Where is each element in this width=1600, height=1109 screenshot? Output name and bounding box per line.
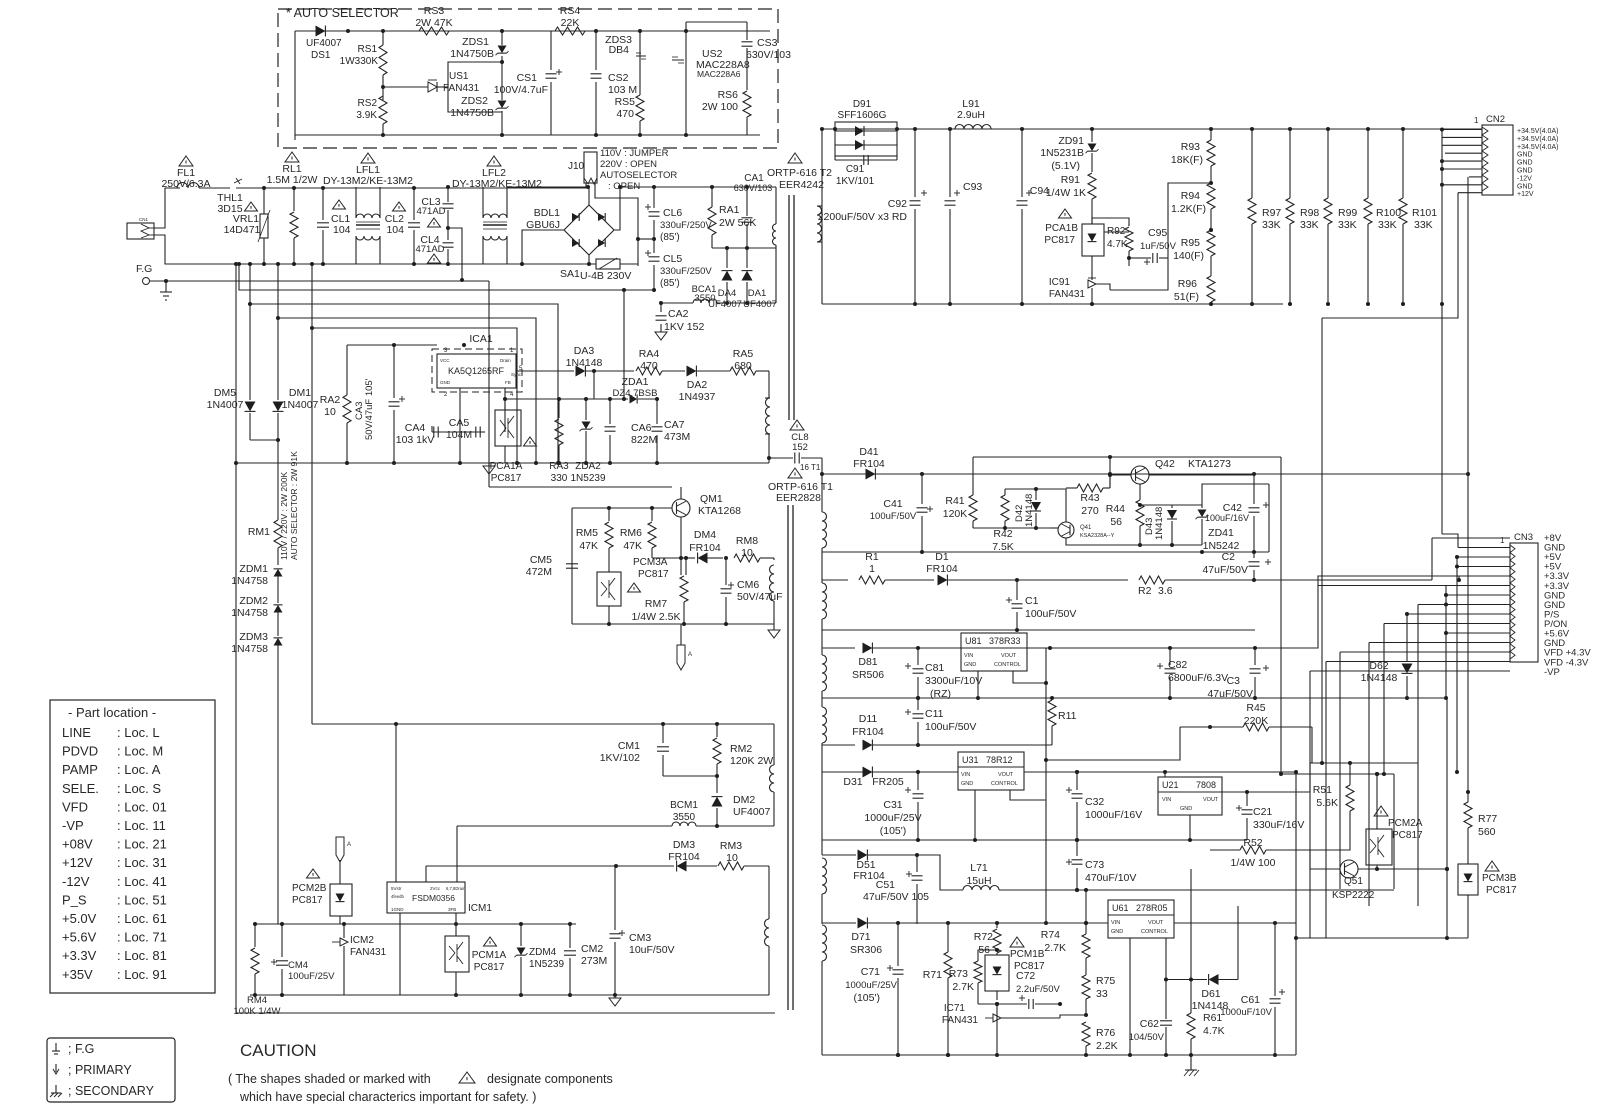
- svg-text:GND: GND: [1111, 929, 1123, 935]
- svg-text:330uF/16V: 330uF/16V: [1253, 819, 1304, 831]
- transformer T2 secondary winding: [817, 206, 822, 242]
- svg-text:4feedb: 4feedb: [391, 894, 404, 899]
- node CS2 top: [594, 29, 598, 33]
- svg-text:AUTO SELECTOR : 2W 91K: AUTO SELECTOR : 2W 91K: [289, 451, 299, 560]
- wire stair 1: [239, 264, 654, 290]
- svg-text:RA1: RA1: [719, 204, 740, 216]
- svg-text:CM5: CM5: [530, 554, 552, 566]
- svg-text:PCA1B: PCA1B: [1045, 223, 1078, 234]
- svg-text:ZDM4: ZDM4: [529, 947, 557, 958]
- svg-text:R93: R93: [1181, 141, 1200, 153]
- resistor RS6 2W 100: [743, 91, 751, 117]
- svg-text:U81: U81: [965, 636, 982, 646]
- wire CN2 +12V vertical: [1322, 193, 1458, 318]
- svg-text:-12V: -12V: [1517, 175, 1532, 182]
- svg-text:DS1: DS1: [311, 50, 331, 61]
- svg-text:103 M: 103 M: [608, 84, 637, 96]
- svg-text:273M: 273M: [581, 955, 607, 967]
- svg-text:C41: C41: [883, 498, 902, 510]
- capacitor CS1 100V/4.7uF: [550, 31, 552, 70]
- svg-text:RS2: RS2: [358, 98, 378, 109]
- svg-text:PCM2B: PCM2B: [292, 883, 327, 894]
- capacitor C71 1000uF/25V (105'): [887, 967, 893, 969]
- svg-text:104: 104: [386, 224, 404, 236]
- svg-text:A: A: [688, 652, 692, 658]
- svg-text:R77: R77: [1478, 813, 1497, 825]
- svg-text:VOUT: VOUT: [1203, 797, 1219, 803]
- svg-text:1N5231B: 1N5231B: [1040, 147, 1084, 159]
- transistor Q41 KSA2328A-Y: [1058, 522, 1074, 538]
- svg-text:1: 1: [1474, 116, 1479, 125]
- svg-text:-VP: -VP: [62, 818, 84, 833]
- svg-text:270: 270: [1081, 505, 1099, 517]
- svg-text:10uF/50V: 10uF/50V: [629, 944, 675, 956]
- svg-text:1N4758: 1N4758: [231, 607, 268, 619]
- svg-text:DY-13M2/KE-13M2: DY-13M2/KE-13M2: [452, 178, 542, 190]
- svg-text:EER2828: EER2828: [776, 492, 821, 504]
- svg-text:DZ4.7BSB: DZ4.7BSB: [613, 388, 658, 399]
- wire ICM1 gnd down: [399, 913, 401, 995]
- wire bottom mid rail: [250, 994, 769, 996]
- svg-text:RM8: RM8: [736, 535, 758, 547]
- svg-text:D1: D1: [935, 551, 949, 563]
- capacitor CM4 100uF/25V: [271, 961, 277, 963]
- svg-text:A: A: [347, 842, 351, 848]
- wire C32 column: [1075, 770, 1079, 774]
- svg-text:R76: R76: [1096, 1027, 1115, 1039]
- svg-text:2W 47K: 2W 47K: [415, 17, 452, 29]
- svg-text:: Loc. 31: : Loc. 31: [117, 855, 167, 870]
- wire stair 1 vertical to FB node: [623, 290, 625, 399]
- wire U31 control: [1010, 790, 1046, 800]
- wire US1 to ZDS boxes: [448, 62, 502, 87]
- svg-text:51(F): 51(F): [1174, 291, 1199, 303]
- svg-text:designate components: designate components: [487, 1072, 613, 1086]
- resistor R100 33K: [1367, 129, 1369, 198]
- capacitor C81 3300uF/10V RZ: [905, 665, 911, 667]
- capacitor CA2 1KV 152: [660, 303, 662, 312]
- svg-text:100K 1/4W: 100K 1/4W: [234, 1006, 281, 1017]
- svg-text:1N4750B: 1N4750B: [450, 48, 494, 60]
- wire ICA1 drain: [516, 370, 574, 372]
- ground CA2: [655, 332, 667, 340]
- svg-text:DM4: DM4: [694, 529, 716, 541]
- optocoupler PCA1B PC817: [1059, 209, 1072, 218]
- svg-text:PAMP: PAMP: [62, 762, 98, 777]
- optocoupler PCM3B PC817: [1485, 861, 1499, 871]
- wire US2 vertical: [685, 22, 687, 135]
- svg-text:C2: C2: [1222, 551, 1236, 563]
- svg-text:( The shapes shaded or marked: ( The shapes shaded or marked with: [228, 1072, 431, 1086]
- svg-text:5.6K: 5.6K: [1316, 797, 1338, 809]
- wire ICA1 vcc rail: [347, 344, 437, 346]
- svg-text:US1: US1: [449, 71, 469, 82]
- resistor R99 33K: [1327, 129, 1329, 198]
- svg-text:RM1: RM1: [248, 526, 270, 538]
- svg-text:+34.5V(4.0A): +34.5V(4.0A): [1517, 136, 1558, 143]
- wire CN3 stubs: [1432, 537, 1510, 539]
- svg-text:1N4148: 1N4148: [566, 357, 603, 369]
- svg-text:PC817: PC817: [1044, 235, 1075, 246]
- wire Q41 collector up: [1036, 489, 1066, 522]
- wire U81 gnd down: [977, 671, 979, 698]
- wire C95 to R95 node: [1167, 215, 1169, 258]
- legend symbol FG: [55, 1043, 57, 1051]
- transformer T1 winding s6: [822, 925, 827, 961]
- capacitor C61 1000uF/10V: [1279, 991, 1285, 993]
- svg-text:- Part location -: - Part location -: [68, 705, 156, 720]
- capacitor C11 100uF/50V: [905, 711, 911, 713]
- svg-text:CM6: CM6: [737, 579, 759, 591]
- svg-text:DM2: DM2: [733, 794, 755, 806]
- svg-text:FR104: FR104: [668, 851, 700, 863]
- node A arrow down pcm2b: [336, 837, 344, 862]
- resistor R101 33K: [1402, 129, 1404, 198]
- shunt reg US1 FAN431: [428, 82, 437, 92]
- wire ICA1 gnd pin: [459, 388, 461, 463]
- resistor RS2 3.9K: [379, 96, 387, 124]
- capacitor CL5 330uF/250V: [653, 239, 655, 253]
- svg-text:R94: R94: [1181, 190, 1200, 202]
- wire AC top rail: [264, 187, 589, 189]
- svg-text:: Loc. 61: : Loc. 61: [117, 911, 167, 926]
- svg-text:RM6: RM6: [620, 527, 642, 539]
- node bottom rail dots: [345, 461, 349, 465]
- svg-text:1uF/50V: 1uF/50V: [1140, 241, 1177, 252]
- wire DM5/DM1 join: [250, 439, 278, 441]
- svg-text:3FB: 3FB: [448, 907, 456, 912]
- wire ICM1 fb down: [455, 913, 457, 924]
- wire DM3 row: [426, 865, 674, 867]
- node RS5: [638, 29, 642, 33]
- wire CM1/RM2 join: [663, 775, 717, 777]
- svg-text:2.2K: 2.2K: [1096, 1040, 1118, 1052]
- ground mid rail: [609, 998, 621, 1006]
- svg-text:330uF/250V: 330uF/250V: [660, 266, 712, 277]
- svg-text:630V/103: 630V/103: [746, 49, 791, 61]
- wire D51 row: [822, 854, 856, 856]
- ground symbol right: [768, 630, 780, 638]
- svg-text:R98: R98: [1300, 207, 1319, 219]
- svg-text:CN2: CN2: [1486, 114, 1505, 125]
- optocoupler PCM1B PC817: [985, 955, 1009, 991]
- svg-text:+12V: +12V: [1517, 191, 1534, 198]
- wire PCM2A top: [1376, 774, 1378, 829]
- svg-text:33K: 33K: [1262, 219, 1281, 231]
- svg-text:560: 560: [1478, 826, 1496, 838]
- svg-text:1N4148: 1N4148: [1361, 672, 1398, 684]
- capacitor C1 100uF/50V: [1006, 599, 1012, 601]
- svg-text:+3.3V: +3.3V: [62, 948, 97, 963]
- transformer T2 core: [788, 195, 790, 420]
- svg-text:140(F): 140(F): [1173, 250, 1204, 262]
- svg-text:MAC228A6: MAC228A6: [697, 69, 741, 79]
- svg-text:470uF/10V: 470uF/10V: [1085, 872, 1136, 884]
- ground R61 hatch: [1185, 1069, 1197, 1071]
- svg-text:278R05: 278R05: [1136, 903, 1168, 913]
- wire R93/R94 tap: [1168, 183, 1211, 215]
- svg-text:CS2: CS2: [608, 72, 629, 84]
- svg-text:R43: R43: [1080, 492, 1099, 504]
- wire D11 bottom rail: [822, 771, 958, 773]
- svg-text:1000uF/25V: 1000uF/25V: [845, 980, 897, 991]
- svg-text:C32: C32: [1085, 796, 1104, 808]
- wire R45 right vertical: [1311, 727, 1313, 763]
- svg-text:1KV/101: 1KV/101: [836, 176, 875, 187]
- wire 34V rail bottom: [822, 303, 1283, 305]
- wire J10 doubler tap: [595, 183, 638, 266]
- wire x312 vcc vertical: [311, 264, 313, 724]
- svg-text:1N4148: 1N4148: [1024, 494, 1035, 527]
- svg-text:14D471: 14D471: [224, 224, 261, 236]
- wire CL3/CL4 tap to FG: [448, 228, 462, 280]
- svg-text:Sync: Sync: [511, 372, 522, 377]
- svg-text:FR104: FR104: [852, 726, 884, 738]
- svg-text:CN1: CN1: [139, 217, 148, 222]
- svg-text:1N5239: 1N5239: [570, 473, 605, 484]
- svg-text:FR205: FR205: [872, 776, 904, 788]
- capacitor CS2 103 M: [595, 31, 597, 70]
- wire ICM1 Vcc up to DM3 row: [425, 866, 427, 882]
- svg-text:CS1: CS1: [517, 72, 538, 84]
- svg-text:D11: D11: [859, 713, 878, 725]
- svg-text:R45: R45: [1246, 702, 1265, 714]
- svg-text:R71: R71: [923, 969, 942, 981]
- resistor RS1 1W330K: [379, 45, 387, 75]
- svg-text:15uH: 15uH: [966, 875, 991, 887]
- wire ICM1 5Vstr up: [395, 724, 397, 882]
- wire left long vertical: [235, 264, 237, 1013]
- svg-text:GND: GND: [1517, 160, 1533, 167]
- svg-text:2.7K: 2.7K: [952, 981, 974, 993]
- wire bridge left vertex: [522, 230, 564, 264]
- svg-text:* AUTO SELECTOR: * AUTO SELECTOR: [286, 6, 399, 20]
- svg-text:50V/47uF 105': 50V/47uF 105': [364, 378, 375, 440]
- svg-text:DY-13M2/KE-13M2: DY-13M2/KE-13M2: [323, 175, 413, 187]
- wire +12V long vertical x1322: [1321, 318, 1323, 763]
- svg-text:2W 100: 2W 100: [702, 101, 738, 113]
- svg-text:R41: R41: [945, 495, 964, 507]
- diode DA4 UF4007: [726, 248, 728, 268]
- svg-text:R75: R75: [1096, 975, 1115, 987]
- svg-text:KA5Q1265RF: KA5Q1265RF: [448, 366, 505, 376]
- svg-text:VCC: VCC: [440, 358, 450, 363]
- svg-text:100uF/25V: 100uF/25V: [288, 971, 335, 982]
- svg-text:PCM3A: PCM3A: [633, 557, 668, 568]
- svg-text:4.7K: 4.7K: [1107, 239, 1128, 250]
- svg-text:CM2: CM2: [581, 943, 603, 955]
- svg-text:; F.G: ; F.G: [68, 1042, 94, 1056]
- svg-text:GBU6J: GBU6J: [526, 219, 560, 231]
- svg-text:+5.6V: +5.6V: [62, 930, 97, 945]
- wire D81 row: [822, 647, 855, 649]
- svg-text:C61: C61: [1241, 994, 1260, 1006]
- svg-text:C95: C95: [1148, 227, 1167, 239]
- svg-text:104M: 104M: [446, 429, 472, 441]
- svg-text:33K: 33K: [1378, 219, 1397, 231]
- svg-text:: Loc. L: : Loc. L: [117, 725, 160, 740]
- svg-text:4.7K: 4.7K: [1203, 1025, 1225, 1037]
- svg-text:1N4758: 1N4758: [231, 643, 268, 655]
- svg-text:: Loc. 51: : Loc. 51: [117, 892, 167, 907]
- svg-text:C92: C92: [888, 198, 907, 210]
- svg-text:100uF/50V: 100uF/50V: [925, 721, 976, 733]
- optocoupler PCM2A PC817: [1366, 829, 1392, 865]
- svg-text:RA4: RA4: [639, 348, 660, 360]
- svg-text:50V/47uF: 50V/47uF: [737, 591, 783, 603]
- svg-text:IC71: IC71: [944, 1003, 966, 1014]
- wire feedback rail: [255, 923, 576, 925]
- ground T1 drive: [773, 558, 775, 560]
- svg-text:BDL1: BDL1: [534, 207, 560, 219]
- wire CA4 row: [432, 431, 485, 433]
- wire secondary top rail: [822, 128, 1482, 130]
- svg-text:FAN431: FAN431: [1049, 289, 1086, 300]
- svg-text:3.6: 3.6: [1158, 585, 1173, 597]
- diode D42 1N4148: [1035, 489, 1037, 500]
- svg-text:CN3: CN3: [1514, 532, 1533, 543]
- svg-text:1N4148: 1N4148: [1154, 507, 1165, 540]
- warning PCM1B: [1010, 937, 1024, 947]
- capacitor C51 47uF/50V 105: [906, 873, 912, 875]
- svg-text:R44: R44: [1106, 503, 1125, 515]
- svg-text:33K: 33K: [1300, 219, 1319, 231]
- svg-text:1000uF/16V: 1000uF/16V: [1085, 809, 1142, 821]
- svg-text:22K: 22K: [561, 17, 580, 29]
- svg-text:DM3: DM3: [673, 839, 695, 851]
- optocoupler PCM2B PC817: [307, 869, 320, 878]
- capacitor CL6 330uF/250V: [653, 187, 655, 208]
- svg-text:C72: C72: [1016, 970, 1035, 982]
- wire C81 bottom rail: [822, 697, 1446, 699]
- wire -VP bottom wire: [1310, 697, 1446, 699]
- svg-text:DA1: DA1: [748, 288, 766, 299]
- svg-text:(85'): (85'): [660, 232, 680, 243]
- wire R43 right to Q42 base: [1109, 457, 1111, 488]
- svg-text:FAN431: FAN431: [942, 1015, 979, 1026]
- svg-text:6800uF/6.3V: 6800uF/6.3V: [1168, 672, 1228, 684]
- svg-text:47K: 47K: [623, 540, 642, 552]
- wire FG line: [149, 280, 489, 282]
- wire +5 long vertical x1296: [1295, 772, 1297, 1055]
- svg-text:ZD91: ZD91: [1058, 135, 1084, 147]
- wire R45 link down: [1046, 727, 1180, 760]
- node QM1 emitter to DM4: [680, 553, 682, 558]
- svg-text:R96: R96: [1178, 278, 1197, 290]
- transistor Q51 KSP2222: [1340, 860, 1358, 878]
- wire DC+ rail: [620, 186, 776, 188]
- part location box: [50, 700, 215, 993]
- svg-text:CA7: CA7: [664, 419, 685, 431]
- node ZDS1 top: [500, 29, 504, 33]
- svg-text:RS4: RS4: [560, 5, 581, 17]
- svg-text:+08V: +08V: [62, 837, 93, 852]
- wire U31 out: [1024, 771, 1296, 773]
- svg-text:ICM2: ICM2: [350, 935, 374, 946]
- svg-text:1.2K(F): 1.2K(F): [1171, 203, 1206, 215]
- wire RA1/CA1 bottom: [712, 247, 776, 249]
- legend symbol SECONDARY: [55, 1085, 57, 1093]
- svg-text:120K 2W: 120K 2W: [730, 755, 773, 767]
- transformer T2 primary winding top: [775, 187, 777, 224]
- wire U31 gnd down: [974, 790, 976, 840]
- svg-text:(105'): (105'): [880, 825, 907, 837]
- legend FG PRIMARY SECONDARY box: [47, 1038, 175, 1102]
- wire R41 bottom to Q41: [973, 527, 1050, 529]
- svg-text:(85'): (85'): [660, 278, 680, 289]
- svg-text:DM5: DM5: [214, 387, 236, 399]
- svg-text:1: 1: [869, 563, 875, 575]
- wire FB node down: [504, 399, 506, 432]
- wire Q41 emitter down: [1066, 538, 1097, 545]
- svg-text:2W 56K: 2W 56K: [719, 217, 756, 229]
- wire CN2 main vertical: [1441, 130, 1443, 535]
- wire +8V to CN3: [1431, 538, 1433, 580]
- svg-text:: Loc. 01: : Loc. 01: [117, 799, 167, 814]
- wire PCM1B down to rail: [996, 1004, 998, 1055]
- transformer T1 winding s2: [821, 552, 823, 583]
- wire ICM1 drain up to BCM1 rail: [456, 826, 458, 882]
- zener ZDS1 1N4750B: [501, 31, 503, 45]
- svg-text:1: 1: [1500, 536, 1505, 545]
- svg-text:UF4007: UF4007: [306, 38, 342, 49]
- capacitor C94: [1026, 192, 1032, 194]
- svg-text:CM4: CM4: [288, 960, 308, 971]
- caution warn symbol: [459, 1072, 475, 1083]
- svg-text:AUTOSELECTOR: AUTOSELECTOR: [600, 170, 677, 181]
- svg-text:: Loc. S: : Loc. S: [117, 781, 161, 796]
- capacitor C31 1000uF/25V (105'): [905, 789, 911, 791]
- wire feedback vertical x1281: [1280, 457, 1282, 774]
- svg-text:R42: R42: [993, 528, 1012, 540]
- optocoupler PCA1A PC817: [495, 410, 521, 446]
- svg-text:16 T1: 16 T1: [800, 463, 821, 472]
- svg-text:RA5: RA5: [733, 348, 754, 360]
- svg-text:D71: D71: [851, 931, 870, 943]
- transistor QM1 KTA1268: [672, 499, 690, 517]
- transistor Q42 KTA1273: [1131, 466, 1149, 484]
- svg-text:P_S: P_S: [62, 892, 87, 907]
- svg-text:CA6: CA6: [631, 422, 652, 434]
- wire PCM3A connections: [608, 560, 610, 572]
- svg-text:220V : OPEN: 220V : OPEN: [600, 159, 657, 170]
- wire Q51 emitter vertical: [1190, 869, 1192, 1013]
- svg-text:FR104: FR104: [853, 458, 885, 470]
- wire Q42 emitter right: [1149, 474, 1254, 476]
- svg-text:330: 330: [551, 473, 568, 484]
- svg-text:1/4W 1K: 1/4W 1K: [1046, 187, 1086, 199]
- svg-text:CM3: CM3: [629, 932, 651, 944]
- svg-text:F.G: F.G: [136, 263, 152, 275]
- svg-text:U61: U61: [1112, 903, 1129, 913]
- svg-text:471AD: 471AD: [416, 206, 445, 217]
- svg-text:47uF/50V: 47uF/50V: [1202, 564, 1248, 576]
- svg-text:PC817: PC817: [292, 895, 323, 906]
- svg-text:R97: R97: [1262, 207, 1281, 219]
- svg-text:47K: 47K: [579, 540, 598, 552]
- svg-text:C31: C31: [883, 799, 902, 811]
- wire bottom rail right end to T2: [768, 458, 770, 463]
- diode DA1 UF4007: [746, 248, 748, 268]
- wire bridge right vertex up to DC rail: [614, 187, 620, 230]
- svg-text:RM7: RM7: [645, 598, 667, 610]
- wire Q51 emitter row: [1358, 868, 1447, 870]
- transformer T1 winding s1: [821, 474, 823, 512]
- IC U81 378R33: [961, 633, 1027, 671]
- svg-text:(105'): (105'): [853, 992, 880, 1004]
- resistor R98 33K: [1289, 129, 1291, 198]
- svg-text:R101: R101: [1412, 207, 1437, 219]
